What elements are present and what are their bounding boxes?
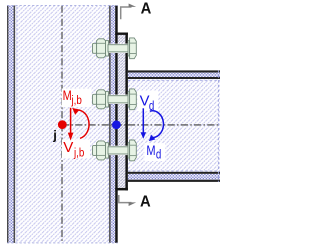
svg-text:M: M [146,143,155,158]
svg-text:j: j [52,127,57,142]
svg-text:A: A [141,0,152,17]
svg-text:V: V [63,139,73,156]
svg-text:A: A [140,193,151,210]
svg-text:d: d [156,148,161,162]
svg-text:j,b: j,b [71,94,82,107]
svg-text:M: M [63,88,72,103]
svg-text:j,b: j,b [73,147,84,160]
svg-text:V: V [140,94,150,110]
